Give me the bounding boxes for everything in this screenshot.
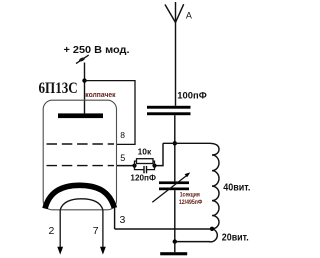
svg-text:3: 3 [120,214,126,226]
heater pin 7 wire + arrow [102,210,104,249]
node junction anode tank [173,141,177,145]
wire varcap to ground node [174,190,176,241]
cathode (thick arc) [45,185,114,208]
heater filament arc [60,199,103,210]
grid g1 (pin 5) dashed [47,165,115,167]
wire pin5 to RC [117,165,135,167]
wire C100 to junction [174,115,176,181]
wire anode junction to pin8 (screen) [85,81,136,145]
tube V1 6П13С envelope [43,100,116,210]
svg-text:A: A [186,10,192,20]
svg-text:7: 7 [93,225,99,237]
heater pin 2 wire + arrow [59,210,61,249]
variable capacitor arrow [152,175,188,203]
wire terminal to anode cap [84,63,86,114]
svg-text:100пФ: 100пФ [177,91,207,102]
resistor R 10к [135,159,155,166]
svg-text:2: 2 [49,225,55,237]
capacitor C 120пФ (parallel) [135,166,155,174]
node anode junction [82,78,86,82]
svg-text:8: 8 [120,130,125,140]
svg-text:6П13С: 6П13С [39,80,78,97]
node RC left [132,164,136,168]
svg-text:40вит.: 40вит. [223,183,250,194]
anode plate [58,113,103,118]
wire cathode pin3 to coil tap [115,228,212,230]
wire cathode to pin 3 [114,208,116,229]
inductor L coil 40вит [209,143,219,242]
node coil tap 20вит [210,227,214,231]
wire antenna to C 100pF [175,23,177,106]
svg-text:120пФ: 120пФ [130,172,156,182]
node RC right [152,164,156,168]
svg-text:20вит.: 20вит. [222,233,249,244]
antenna A [165,2,184,23]
svg-text:12/495пФ: 12/495пФ [179,199,203,206]
terminal clamp symbol [76,55,89,64]
node ground junction [173,239,177,243]
capacitor 100пФ [147,106,191,115]
wire junction to coil top [163,142,210,144]
ground [174,242,176,253]
svg-text:10к: 10к [138,147,152,157]
coil bottom wire to ground node [175,241,210,243]
svg-text:1секция: 1секция [180,192,201,198]
svg-text:5: 5 [120,153,125,163]
variable capacitor C 12/495пФ [159,181,189,190]
svg-text:колпачек: колпачек [85,92,116,99]
svg-text:+ 250 В мод.: + 250 В мод. [64,44,130,56]
wire junction down-left to RC [155,143,164,165]
grid g2 (pin 8) dashed [47,143,115,145]
